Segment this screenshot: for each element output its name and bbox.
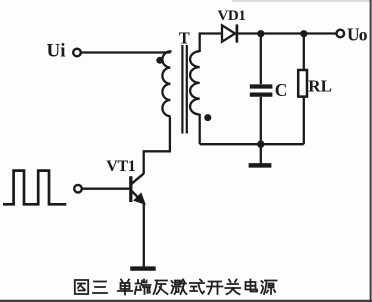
phase dot secondary (204, 114, 211, 121)
terminal Ui (73, 49, 81, 57)
capacitor C plate bottom (250, 92, 273, 96)
transformer core line 2 (186, 45, 188, 134)
wire Ui to transformer primary (81, 51, 170, 53)
capacitor C plate top (250, 84, 273, 88)
svg-text:VD1: VD1 (218, 8, 246, 24)
caption 图三 单端反激式开关电源 (hand-drawn CJK) (75, 280, 277, 295)
terminal Uo (337, 30, 345, 38)
char 开 (207, 282, 223, 295)
transistor VT1 base bar (129, 176, 132, 202)
transformer primary winding (162, 51, 170, 116)
wire emitter down (143, 203, 145, 268)
transformer secondary winding (190, 51, 200, 114)
char 单 (118, 280, 132, 295)
svg-text:VT1: VT1 (106, 158, 135, 175)
svg-text:C: C (275, 80, 288, 100)
wire junction to ground (260, 144, 262, 164)
wire primary bottom to collector (144, 117, 170, 175)
wire diode to output (238, 32, 336, 34)
wire primary top corner (169, 50, 171, 52)
transformer core line 1 (181, 45, 183, 134)
bottom rail wire (200, 143, 304, 145)
char 式 (190, 280, 204, 294)
square wave symbol (3, 171, 66, 205)
wire junction to resistor (303, 34, 305, 70)
wire secondary bottom (199, 114, 201, 144)
char 图 (75, 280, 88, 294)
wire input terminal to base (82, 188, 129, 190)
junction node at ground (257, 141, 264, 148)
svg-text:T: T (179, 28, 190, 47)
svg-text:RL: RL (308, 77, 332, 96)
svg-text:Uo: Uo (347, 25, 368, 45)
char 三 (93, 282, 107, 294)
wire junction to capacitor (260, 34, 262, 84)
wire capacitor to bottom rail (260, 97, 262, 144)
ground bar secondary (249, 163, 272, 168)
junction node above C (257, 30, 264, 37)
char 关 (225, 280, 240, 295)
diode VD1 cathode bar (236, 24, 239, 42)
junction node above RL (300, 30, 307, 37)
char 源 (261, 281, 276, 295)
char 端 (135, 280, 151, 295)
transistor VT1 emitter arrow (135, 194, 144, 203)
ground bar emitter (130, 266, 156, 270)
diode VD1 triangle (222, 25, 235, 41)
transistor VT1 emitter diagonal (132, 191, 144, 203)
char 电 (246, 280, 258, 292)
wire resistor to bottom rail (303, 97, 305, 145)
phase dot primary (156, 57, 163, 64)
svg-text:Ui: Ui (47, 41, 66, 62)
terminal input (74, 185, 82, 193)
transistor VT1 collector diagonal (132, 174, 144, 184)
resistor RL body (298, 70, 307, 97)
wire secondary top to diode (200, 34, 222, 53)
char 反 (154, 281, 168, 295)
char 激 (171, 280, 186, 295)
